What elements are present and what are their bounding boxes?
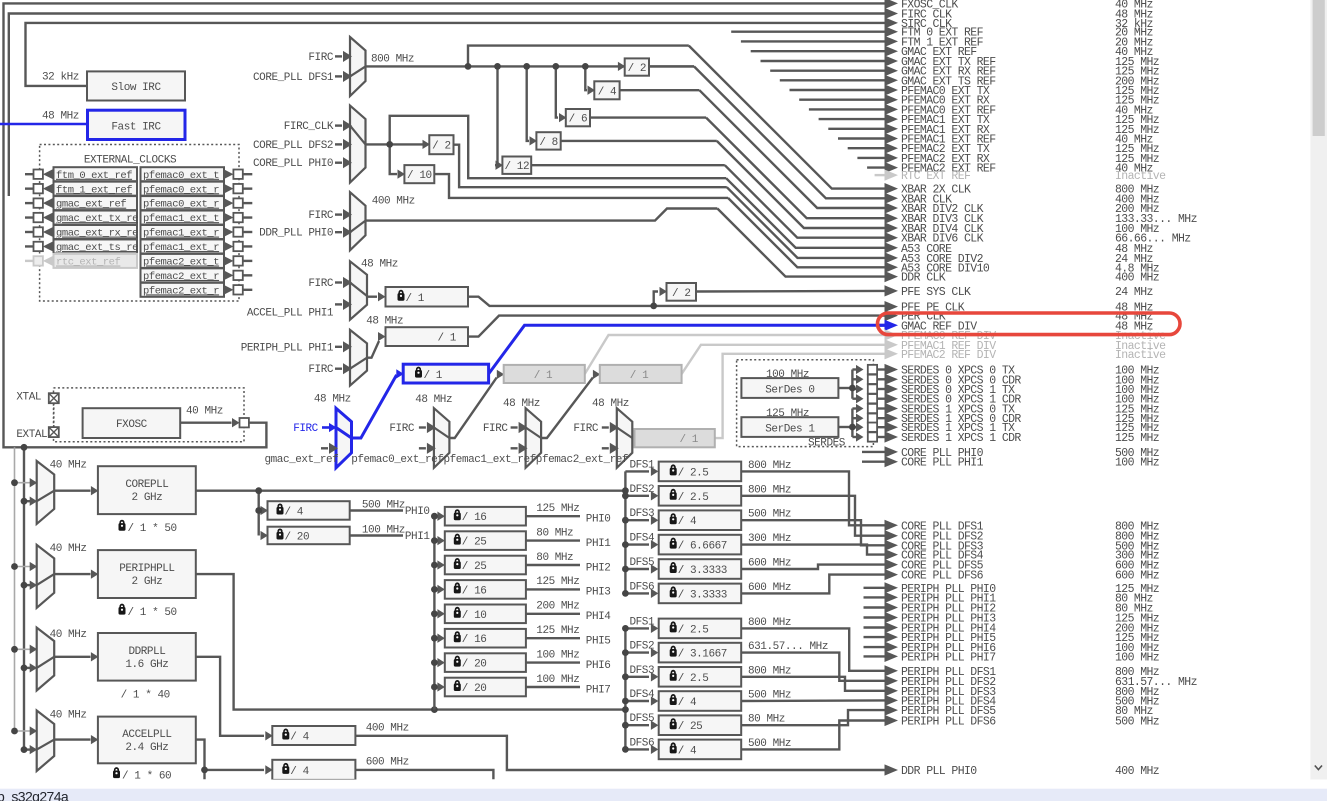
svg-text:125 MHz: 125 MHz (536, 625, 579, 637)
svg-text:100 MHz: 100 MHz (1115, 457, 1159, 470)
svg-text:pfemac2_ext_r: pfemac2_ext_r (143, 285, 219, 297)
svg-text:800 MHz: 800 MHz (371, 54, 414, 66)
svg-text:500 MHz: 500 MHz (748, 690, 791, 702)
svg-text:400 MHz: 400 MHz (1115, 272, 1159, 285)
svg-text:PERIPH PLL DFS6: PERIPH PLL DFS6 (901, 716, 996, 729)
svg-text:PERIPH_PLL PHI1: PERIPH_PLL PHI1 (241, 342, 334, 354)
svg-text:/ 2: / 2 (672, 288, 690, 300)
svg-text:/ 4: / 4 (678, 745, 697, 757)
svg-text:EXTERNAL_CLOCKS: EXTERNAL_CLOCKS (84, 155, 177, 167)
svg-text:2 GHz: 2 GHz (132, 492, 163, 504)
svg-text:/ 3.3333: / 3.3333 (678, 589, 727, 601)
svg-text:CORE PLL DFS6: CORE PLL DFS6 (901, 570, 984, 583)
svg-text:200 MHz: 200 MHz (536, 601, 579, 613)
svg-text:/ 25: / 25 (462, 537, 487, 549)
svg-text:gmac_ext_ts_re: gmac_ext_ts_re (56, 242, 138, 254)
svg-text:500 MHz: 500 MHz (748, 738, 791, 750)
svg-text:40 MHz: 40 MHz (50, 543, 87, 555)
svg-text:80 MHz: 80 MHz (748, 714, 785, 726)
svg-text:FIRC: FIRC (573, 423, 598, 435)
svg-text:/ 20: / 20 (462, 659, 487, 671)
svg-text:pfemac0_ext_r: pfemac0_ext_r (143, 184, 219, 196)
svg-text:40 MHz: 40 MHz (50, 629, 87, 641)
svg-text:125 MHz: 125 MHz (536, 576, 579, 588)
svg-text:PFE SYS CLK: PFE SYS CLK (901, 286, 971, 299)
svg-text:/ 2: / 2 (628, 63, 646, 75)
svg-text:125 MHz: 125 MHz (536, 503, 579, 515)
svg-text:PHI4: PHI4 (586, 611, 611, 623)
svg-text:pfemac2_ext_ref: pfemac2_ext_ref (536, 454, 628, 466)
svg-text:DFS1: DFS1 (630, 616, 655, 628)
svg-text:gmac_ext_tx_re: gmac_ext_tx_re (56, 213, 138, 225)
svg-text:800 MHz: 800 MHz (748, 617, 791, 629)
svg-text:pfemac2_ext_r: pfemac2_ext_r (143, 271, 219, 283)
svg-text:SerDes 0: SerDes 0 (765, 385, 814, 397)
svg-text:/ 3.3333: / 3.3333 (678, 565, 727, 577)
svg-text:48 MHz: 48 MHz (415, 394, 452, 406)
svg-text:DFS4: DFS4 (630, 533, 655, 545)
svg-text:/ 16: / 16 (462, 512, 487, 524)
svg-text:DFS2: DFS2 (630, 641, 655, 653)
svg-text:40 MHz: 40 MHz (50, 709, 87, 721)
svg-text:FIRC: FIRC (389, 423, 414, 435)
svg-text:Inactive: Inactive (1115, 170, 1166, 183)
svg-text:48 MHz: 48 MHz (366, 315, 403, 327)
svg-text:500 MHz: 500 MHz (748, 509, 791, 521)
svg-text:ftm_0_ext_ref: ftm_0_ext_ref (56, 170, 132, 182)
svg-text:/ 1: / 1 (630, 370, 649, 382)
svg-text:DFS5: DFS5 (630, 557, 655, 569)
svg-text:XTAL: XTAL (16, 391, 41, 403)
svg-text:/ 1: / 1 (438, 333, 457, 345)
svg-text:600 MHz: 600 MHz (748, 582, 791, 594)
svg-text:400 MHz: 400 MHz (366, 723, 409, 735)
svg-text:ftm_1_ext_ref: ftm_1_ext_ref (56, 184, 132, 196)
svg-text:48 MHz: 48 MHz (592, 398, 629, 410)
svg-text:SERDES 1 XPCS 1 CDR: SERDES 1 XPCS 1 CDR (901, 432, 1021, 445)
svg-text:CORE_PLL DFS2: CORE_PLL DFS2 (253, 140, 333, 152)
svg-text:800 MHz: 800 MHz (748, 460, 791, 472)
svg-text:CORE_PLL DFS1: CORE_PLL DFS1 (253, 72, 334, 84)
svg-text:/ 1: / 1 (406, 293, 425, 305)
svg-text:48 MHz: 48 MHz (503, 398, 540, 410)
svg-text:FXOSC: FXOSC (116, 419, 148, 431)
svg-text:PFEMAC2 REF DIV: PFEMAC2 REF DIV (901, 349, 996, 362)
svg-text:48 MHz: 48 MHz (42, 110, 79, 122)
svg-text:/ 4: / 4 (678, 697, 697, 709)
svg-text:DDR PLL PHI0: DDR PLL PHI0 (901, 765, 977, 778)
svg-text:gmac_ext_ref: gmac_ext_ref (56, 199, 126, 211)
svg-text:400 MHz: 400 MHz (372, 196, 415, 208)
svg-text:100 MHz: 100 MHz (536, 674, 579, 686)
svg-text:300 MHz: 300 MHz (748, 533, 791, 545)
svg-text:PHI7: PHI7 (586, 684, 611, 696)
svg-text:/ 4: / 4 (290, 732, 309, 744)
svg-text:PHI6: PHI6 (586, 660, 611, 672)
svg-text:pfemac1_ext_ref: pfemac1_ext_ref (444, 454, 536, 466)
svg-text:PHI0: PHI0 (405, 506, 430, 518)
svg-text:pfemac0_ext_t: pfemac0_ext_t (143, 170, 219, 182)
svg-text:DDRPLL: DDRPLL (128, 646, 165, 658)
svg-text:/ 16: / 16 (462, 585, 487, 597)
svg-text:/ 8: / 8 (539, 137, 557, 149)
svg-text:PHI1: PHI1 (405, 531, 430, 543)
svg-text:pfemac0_ext_r: pfemac0_ext_r (143, 199, 219, 211)
svg-text:125 MHz: 125 MHz (1115, 432, 1159, 445)
svg-text:CORE PLL PHI1: CORE PLL PHI1 (901, 457, 984, 470)
svg-text:ACCELPLL: ACCELPLL (122, 729, 171, 741)
svg-text:/ 25: / 25 (462, 561, 487, 573)
svg-text:/ 2.5: / 2.5 (678, 467, 709, 479)
svg-text:/ 4: / 4 (285, 506, 304, 518)
svg-text:Slow IRC: Slow IRC (111, 82, 161, 94)
svg-text:/ 4: / 4 (678, 516, 697, 528)
svg-text:/ 2.5: / 2.5 (678, 492, 709, 504)
svg-text:pfemac1_ext_r: pfemac1_ext_r (143, 242, 219, 254)
svg-text:PHI1: PHI1 (586, 538, 611, 550)
svg-text:CORE_PLL PHI0: CORE_PLL PHI0 (253, 158, 333, 170)
svg-text:/ 1: / 1 (424, 370, 443, 382)
svg-text:PHI3: PHI3 (586, 587, 611, 599)
svg-text:PHI0: PHI0 (586, 514, 611, 526)
svg-text:/ 3.1667: / 3.1667 (678, 649, 727, 661)
svg-text:FIRC: FIRC (308, 278, 333, 290)
svg-text:DFS3: DFS3 (630, 508, 655, 520)
svg-text:FIRC_CLK: FIRC_CLK (284, 121, 334, 133)
svg-text:2.4 GHz: 2.4 GHz (125, 742, 168, 754)
svg-text:DFS3: DFS3 (630, 665, 655, 677)
svg-text:100 MHz: 100 MHz (766, 369, 809, 381)
svg-text:FIRC: FIRC (308, 210, 333, 222)
svg-text:/ 20: / 20 (462, 683, 487, 695)
svg-text:48 MHz: 48 MHz (361, 259, 398, 271)
svg-text:pfemac1_ext_t: pfemac1_ext_t (143, 213, 219, 225)
svg-text:80 MHz: 80 MHz (536, 552, 573, 564)
svg-text:PHI2: PHI2 (586, 562, 611, 574)
svg-text:/ 1 * 50: / 1 * 50 (128, 607, 177, 619)
svg-text:2 GHz: 2 GHz (132, 576, 163, 588)
svg-text:/ 2.5: / 2.5 (678, 624, 709, 636)
svg-text:pfemac1_ext_r: pfemac1_ext_r (143, 228, 219, 240)
svg-text:EXTAL: EXTAL (16, 429, 47, 441)
svg-text:pfemac0_ext_ref: pfemac0_ext_ref (351, 454, 443, 466)
svg-text:/ 1: / 1 (680, 434, 699, 446)
svg-text:DDR_PLL PHI0: DDR_PLL PHI0 (259, 228, 333, 240)
svg-text:RTC EXT REF: RTC EXT REF (901, 170, 971, 183)
svg-text:125 MHz: 125 MHz (766, 408, 809, 420)
svg-text:800 MHz: 800 MHz (748, 665, 791, 677)
svg-text:/ 6.6667: / 6.6667 (678, 541, 727, 553)
svg-text:/ 6: / 6 (569, 114, 587, 126)
svg-text:1.6 GHz: 1.6 GHz (125, 659, 168, 671)
svg-text:PERIPH PLL PHI7: PERIPH PLL PHI7 (901, 651, 996, 664)
svg-text:/ 4: / 4 (290, 766, 309, 778)
svg-text:600 MHz: 600 MHz (366, 756, 409, 768)
svg-text:DFS5: DFS5 (630, 713, 655, 725)
svg-text:DFS6: DFS6 (630, 581, 655, 593)
svg-text:DFS6: DFS6 (630, 737, 655, 749)
svg-text:100 MHz: 100 MHz (1115, 651, 1159, 664)
svg-text:gmac_ext_rx_re: gmac_ext_rx_re (56, 228, 138, 240)
svg-text:Fast IRC: Fast IRC (111, 121, 161, 133)
svg-text:PERIPHPLL: PERIPHPLL (119, 563, 174, 575)
svg-text:Inactive: Inactive (1115, 349, 1166, 362)
svg-text:FIRC: FIRC (308, 52, 333, 64)
svg-text:/ 25: / 25 (678, 721, 703, 733)
svg-text:40 MHz: 40 MHz (186, 406, 223, 418)
svg-text:48 MHz: 48 MHz (314, 394, 351, 406)
svg-text:100 MHz: 100 MHz (536, 649, 579, 661)
svg-text:500 MHz: 500 MHz (362, 499, 405, 511)
svg-text:631.57... MHz: 631.57... MHz (748, 641, 828, 653)
svg-text:600 MHz: 600 MHz (748, 558, 791, 570)
svg-text:800 MHz: 800 MHz (748, 484, 791, 496)
svg-text:40 MHz: 40 MHz (50, 459, 87, 471)
svg-text:DFS4: DFS4 (630, 689, 655, 701)
svg-text:/ 12: / 12 (504, 161, 529, 173)
svg-text:pfemac2_ext_t: pfemac2_ext_t (143, 257, 219, 269)
svg-text:32 kHz: 32 kHz (42, 71, 79, 83)
svg-text:400 MHz: 400 MHz (1115, 765, 1159, 778)
svg-text:/ 16: / 16 (462, 634, 487, 646)
svg-text:DFS2: DFS2 (630, 484, 655, 496)
svg-text:SERDES: SERDES (808, 437, 846, 449)
svg-text:PHI5: PHI5 (586, 636, 611, 648)
svg-text:DFS1: DFS1 (630, 459, 655, 471)
svg-text:/ 20: / 20 (285, 531, 310, 543)
svg-text:FIRC: FIRC (293, 423, 318, 435)
svg-text:24 MHz: 24 MHz (1115, 286, 1153, 299)
svg-text:/ 1: / 1 (534, 370, 553, 382)
svg-text:gmac_ext_ref: gmac_ext_ref (265, 454, 339, 466)
svg-text:rtc_ext_ref: rtc_ext_ref (56, 257, 121, 269)
svg-text:/ 10: / 10 (407, 170, 432, 182)
svg-text:FIRC: FIRC (308, 364, 333, 376)
svg-text:/ 2.5: / 2.5 (678, 673, 709, 685)
svg-text:/ 4: / 4 (598, 86, 617, 98)
svg-text:100 MHz: 100 MHz (362, 524, 405, 536)
svg-text:COREPLL: COREPLL (125, 479, 168, 491)
svg-text:SerDes 1: SerDes 1 (765, 424, 815, 436)
svg-text:/ 1 * 50: / 1 * 50 (128, 523, 177, 535)
svg-text:FIRC: FIRC (483, 423, 508, 435)
svg-text:ACCEL_PLL PHI1: ACCEL_PLL PHI1 (247, 307, 334, 319)
svg-text:/ 10: / 10 (462, 610, 487, 622)
svg-text:p_s32g274a: p_s32g274a (0, 789, 69, 802)
svg-text:500 MHz: 500 MHz (1115, 716, 1159, 729)
svg-text:80 MHz: 80 MHz (536, 527, 573, 539)
svg-text:/ 1 * 40: / 1 * 40 (121, 690, 170, 702)
svg-text:DDR CLK: DDR CLK (901, 272, 946, 285)
svg-text:600 MHz: 600 MHz (1115, 570, 1159, 583)
svg-text:/ 2: / 2 (432, 141, 450, 153)
